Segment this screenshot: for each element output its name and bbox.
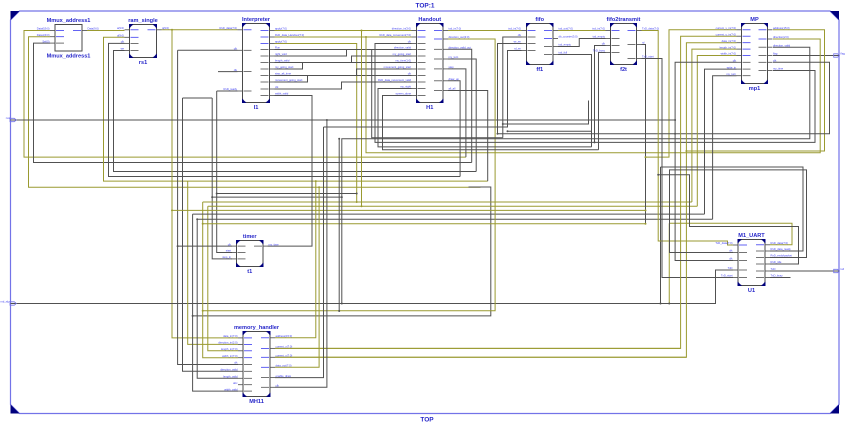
svg-text:TxD_data(7:0): TxD_data(7:0)	[715, 241, 732, 245]
svg-text:apply(7:0): apply(7:0)	[275, 27, 287, 31]
svg-text:step: step	[449, 65, 455, 69]
svg-text:Data1(9:0): Data1(9:0)	[37, 33, 50, 37]
svg-text:txd_in(7:0): txd_in(7:0)	[592, 27, 605, 31]
svg-text:TxD_data(7:0): TxD_data(7:0)	[642, 27, 659, 31]
svg-text:flag: flag	[773, 52, 778, 56]
svg-text:Data(9:0): Data(9:0)	[88, 27, 99, 31]
svg-text:step_alt_time: step_alt_time	[275, 72, 291, 76]
svg-text:movement_going_start: movement_going_start	[384, 65, 412, 69]
svg-text:mp1: mp1	[749, 86, 761, 92]
svg-text:draw_up: draw_up	[449, 77, 460, 81]
svg-text:rxd: rxd	[6, 116, 10, 120]
svg-text:txd_in(7:0): txd_in(7:0)	[508, 27, 521, 31]
svg-text:right_void: right_void	[275, 52, 287, 56]
svg-text:RxD_endofpacket: RxD_endofpacket	[771, 254, 793, 258]
svg-text:a(9:0): a(9:0)	[117, 26, 124, 30]
svg-text:rxd_rdy: rxd_rdy	[1, 299, 11, 303]
svg-text:RxD_data_Handout(7:0): RxD_data_Handout(7:0)	[275, 33, 304, 37]
svg-text:M1_UART: M1_UART	[738, 233, 765, 239]
svg-text:write_in: write_in	[727, 65, 737, 69]
svg-text:data_in(7:0): data_in(7:0)	[223, 334, 237, 338]
svg-text:address(15:0): address(15:0)	[773, 26, 790, 30]
svg-text:TxD_start: TxD_start	[642, 55, 654, 59]
svg-text:Data0(9:0): Data0(9:0)	[37, 27, 50, 31]
svg-text:enable_draw: enable_draw	[276, 374, 291, 378]
svg-text:my_turn: my_turn	[449, 55, 459, 59]
svg-text:flag: flag	[841, 51, 846, 55]
svg-text:RxD_data(7:0): RxD_data(7:0)	[771, 241, 789, 245]
svg-text:direction_valid: direction_valid	[394, 46, 412, 50]
svg-text:txd_out(7:0): txd_out(7:0)	[559, 27, 573, 31]
svg-text:width_valid: width_valid	[275, 92, 289, 96]
svg-text:direction_valid: direction_valid	[220, 368, 238, 372]
svg-text:stop_in: stop_in	[222, 255, 231, 259]
svg-text:length_valid: length_valid	[275, 59, 290, 63]
svg-text:txd: txd	[841, 267, 845, 271]
svg-text:my_going_start: my_going_start	[393, 52, 412, 56]
svg-text:fifo: fifo	[535, 17, 544, 23]
svg-text:txd_empty: txd_empty	[559, 43, 572, 47]
svg-text:movement_going_start: movement_going_start	[275, 78, 303, 82]
svg-text:TxD_busy: TxD_busy	[771, 274, 784, 278]
svg-text:MH11: MH11	[249, 399, 264, 405]
svg-text:txd_empty: txd_empty	[593, 35, 606, 39]
svg-text:width_in(7:0): width_in(7:0)	[222, 354, 237, 358]
svg-text:address(15:0): address(15:0)	[276, 334, 293, 338]
svg-text:length_in(7:0): length_in(7:0)	[720, 45, 737, 49]
svg-text:TxD: TxD	[771, 267, 776, 271]
svg-text:TxD_start: TxD_start	[721, 274, 733, 278]
svg-text:my_turn: my_turn	[726, 72, 736, 76]
svg-text:U1: U1	[748, 288, 755, 294]
svg-text:Interpreter: Interpreter	[242, 17, 271, 23]
svg-text:current_y_in(7:0): current_y_in(7:0)	[716, 32, 736, 36]
svg-text:RxD_data_ready: RxD_data_ready	[771, 247, 792, 251]
svg-text:abc: abc	[233, 381, 238, 385]
svg-text:wr_en: wr_en	[514, 40, 522, 44]
svg-text:I1: I1	[254, 105, 259, 111]
svg-text:TOP: TOP	[420, 417, 434, 424]
svg-text:Mmux_address1: Mmux_address1	[47, 18, 91, 24]
svg-text:MP: MP	[750, 17, 759, 23]
svg-text:ram_single: ram_single	[128, 18, 158, 24]
svg-text:H1: H1	[426, 105, 433, 111]
svg-text:RxD_ready: RxD_ready	[224, 87, 238, 91]
svg-text:TxD_busy: TxD_busy	[593, 49, 606, 53]
svg-text:current_x_in(7:0): current_x_in(7:0)	[716, 26, 736, 30]
svg-text:Mmux_address1: Mmux_address1	[47, 54, 91, 60]
svg-text:direction_valid: direction_valid	[773, 43, 791, 47]
svg-text:current_y(7:0): current_y(7:0)	[276, 354, 293, 358]
svg-text:TOP:1: TOP:1	[415, 3, 434, 10]
svg-text:memory_handler: memory_handler	[234, 325, 280, 331]
svg-text:screen_done: screen_done	[395, 92, 411, 96]
svg-text:all_all: all_all	[449, 87, 456, 91]
svg-text:length_in(7:0): length_in(7:0)	[221, 347, 238, 351]
svg-text:RxD_data(7:0): RxD_data(7:0)	[220, 26, 238, 30]
svg-text:width_in(7:0): width_in(7:0)	[721, 52, 736, 56]
svg-text:fifo2transmit: fifo2transmit	[607, 17, 641, 23]
svg-text:direction_valid_out: direction_valid_out	[449, 46, 472, 50]
svg-text:q(9:0): q(9:0)	[162, 26, 169, 30]
svg-text:rd_en: rd_en	[514, 47, 521, 51]
svg-text:db_counter(3:0): db_counter(3:0)	[559, 35, 578, 39]
svg-text:my_time: my_time	[773, 67, 784, 71]
svg-text:direction_in(2:0): direction_in(2:0)	[218, 341, 237, 345]
svg-text:apply(7:0): apply(7:0)	[275, 40, 287, 44]
svg-text:my_time: my_time	[269, 242, 280, 246]
svg-text:Sel(0): Sel(0)	[42, 39, 49, 43]
svg-text:Run: Run	[275, 46, 280, 50]
svg-text:d(9:0): d(9:0)	[117, 34, 124, 38]
svg-text:txd_full: txd_full	[559, 51, 568, 55]
svg-text:my_night: my_night	[400, 85, 411, 89]
svg-text:Handout: Handout	[418, 17, 441, 23]
svg-text:data_in(7:0): data_in(7:0)	[722, 39, 736, 43]
svg-text:width_valid: width_valid	[224, 387, 238, 391]
svg-text:we: we	[121, 48, 125, 51]
svg-text:RxD_idle: RxD_idle	[771, 260, 782, 264]
svg-text:my_time(1:0): my_time(1:0)	[395, 59, 411, 63]
svg-text:direction(2:0): direction(2:0)	[773, 35, 789, 39]
svg-text:my_going_start: my_going_start	[275, 65, 294, 69]
svg-text:start: start	[226, 249, 231, 253]
svg-text:data_out(7:0): data_out(7:0)	[276, 364, 292, 368]
svg-text:timer: timer	[243, 234, 258, 240]
svg-text:t1: t1	[247, 269, 252, 275]
svg-text:ff1: ff1	[536, 67, 543, 73]
svg-text:txd_in(7:0): txd_in(7:0)	[449, 27, 462, 31]
svg-text:direction_out(3:0): direction_out(3:0)	[449, 35, 470, 39]
svg-text:TxD: TxD	[728, 266, 733, 270]
svg-text:RxD_data_movement(7:0): RxD_data_movement(7:0)	[379, 33, 411, 37]
svg-text:current_x(7:0): current_x(7:0)	[276, 345, 293, 349]
svg-text:f2t: f2t	[620, 67, 627, 73]
svg-text:direction_in(3:0): direction_in(3:0)	[392, 27, 411, 31]
svg-text:RxD_data_movement_valid: RxD_data_movement_valid	[378, 78, 412, 82]
svg-text:rs1: rs1	[139, 60, 147, 66]
svg-text:length_valid: length_valid	[223, 375, 238, 379]
